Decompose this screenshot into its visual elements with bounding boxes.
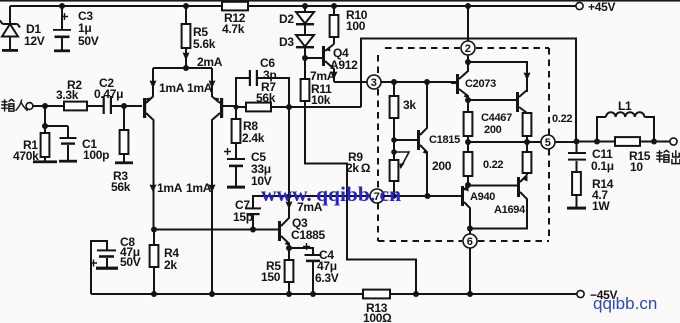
ground (C1) xyxy=(59,160,77,163)
node dot zobel/feedback xyxy=(574,139,580,145)
current arrow 2mA xyxy=(183,53,223,70)
resistor R15 10 (damping) xyxy=(615,137,651,174)
resistor R1 470k xyxy=(13,126,49,163)
resistor R14 4.7 1W xyxy=(572,172,614,213)
ground (C3) xyxy=(54,49,70,52)
wire input node down xyxy=(44,106,46,126)
resistor R2 3.3k xyxy=(56,78,87,110)
capacitor C2 0.47u xyxy=(94,76,123,114)
terminal -45V xyxy=(577,288,618,302)
pin circle 3 xyxy=(367,75,381,89)
svg-text:150: 150 xyxy=(261,270,281,284)
resistor 200 lower xyxy=(464,142,504,185)
svg-text:100p: 100p xyxy=(83,148,109,162)
svg-text:50V: 50V xyxy=(78,34,99,48)
transistor A940 (PNP driver) xyxy=(428,185,495,228)
wire feedback long path to output xyxy=(361,39,576,142)
pin circle 2 xyxy=(461,41,475,55)
node dot L1 right xyxy=(651,139,657,145)
svg-text:1W: 1W xyxy=(592,199,610,213)
svg-text:100: 100 xyxy=(346,19,366,33)
capacitor C4 47u 6.3V xyxy=(289,243,339,294)
svg-text:2: 2 xyxy=(465,43,471,55)
resistor R5 5.6k (tail) xyxy=(182,3,216,68)
transistor Q4 A912 (PNP) xyxy=(305,44,358,82)
svg-text:0.22: 0.22 xyxy=(552,113,572,125)
scan border top xyxy=(0,0,680,2)
node dot C1815 emitter bottom xyxy=(425,193,431,199)
transistor Q2 (PNP right) xyxy=(212,97,236,295)
current arrow 1mA right xyxy=(187,81,216,96)
node dot pot wiper xyxy=(391,149,397,155)
svg-text:1mA: 1mA xyxy=(157,181,183,195)
svg-text:3: 3 xyxy=(371,77,377,89)
label input 输入 xyxy=(1,99,27,111)
resistor R10 100 xyxy=(330,3,368,44)
svg-text:100Ω: 100Ω xyxy=(363,311,392,323)
current arrow 1mA lower-left xyxy=(150,181,183,195)
transistor C4467 (NPN output) xyxy=(468,90,527,115)
node dot pot bottom xyxy=(391,193,396,198)
node dot R4 top xyxy=(151,227,157,233)
transistor A1694 (PNP output) xyxy=(470,175,528,229)
svg-text:1mA: 1mA xyxy=(186,181,212,195)
svg-text:1mA: 1mA xyxy=(159,81,185,95)
capacitor C11 0.1u xyxy=(568,142,614,174)
ground (C8) xyxy=(96,267,118,270)
svg-text:10: 10 xyxy=(630,160,643,174)
wire C2 to Q1 base xyxy=(112,105,142,107)
ground (D1) xyxy=(2,49,18,52)
capacitor C8 47u 50V xyxy=(90,235,141,294)
node dot collectors top xyxy=(465,59,471,65)
transistor C2073 (NPN driver) xyxy=(451,62,496,100)
capacitor C3 1u 50V xyxy=(53,6,99,50)
wire output line xyxy=(577,141,671,143)
inductor L1 xyxy=(597,99,654,142)
node dot Q4 base xyxy=(302,55,308,61)
node dot A940 emitter xyxy=(465,182,471,188)
node dot C2073 emitter xyxy=(465,97,471,103)
svg-text:6: 6 xyxy=(467,236,473,248)
svg-text:3k: 3k xyxy=(403,98,416,112)
capacitor C5 33u 10V xyxy=(224,143,272,188)
svg-text:2mA: 2mA xyxy=(197,55,223,69)
wire Q1 collector to Q3 base xyxy=(153,229,278,231)
svg-text:15p: 15p xyxy=(233,210,253,224)
svg-text:7mA: 7mA xyxy=(310,69,336,83)
svg-text:qqibb.cn: qqibb.cn xyxy=(593,294,657,313)
terminal output xyxy=(670,138,677,145)
terminal +45V xyxy=(576,0,616,14)
svg-text:A1694: A1694 xyxy=(494,204,526,216)
node dot feedback/VAS xyxy=(286,104,292,110)
resistor R8 2.4k xyxy=(232,107,265,145)
resistor R5 150 (emitter) xyxy=(261,248,293,294)
resistor 0.22 lower xyxy=(523,142,532,175)
label output 输出 xyxy=(656,150,680,163)
svg-text:0.22: 0.22 xyxy=(483,159,503,171)
transistor Q3 C1885 (VAS NPN) xyxy=(278,78,325,248)
wire input to R2 xyxy=(33,105,64,107)
node dot rail Q2 xyxy=(209,291,215,297)
svg-text:200: 200 xyxy=(484,124,502,136)
svg-text:5: 5 xyxy=(545,137,551,149)
node dot rail R11 path xyxy=(413,291,419,297)
current arrow on C4467 collector xyxy=(524,73,531,81)
capacitor C7 15p xyxy=(233,196,289,230)
svg-text:0.47μ: 0.47μ xyxy=(94,87,123,101)
resistor R13 100ohm (in bottom rail) xyxy=(363,290,392,323)
svg-text:D2: D2 xyxy=(279,12,294,26)
ground (R14) xyxy=(567,207,586,210)
transistor C1815 (bias) xyxy=(394,82,460,196)
capacitor C1 100p xyxy=(45,126,109,162)
wire pin6 to rail xyxy=(469,228,471,294)
svg-text:A940: A940 xyxy=(470,191,495,203)
terminal input xyxy=(26,103,33,110)
svg-text:5.6k: 5.6k xyxy=(193,37,216,51)
node dot rail pin6 xyxy=(467,291,473,297)
wire node5 line xyxy=(468,141,541,143)
node dot rail R5-150 xyxy=(286,291,292,297)
pin circle 7 xyxy=(370,189,384,203)
svg-text:D3: D3 xyxy=(279,35,294,49)
node dot collectors bottom xyxy=(467,226,473,232)
node dot Q3 emitter xyxy=(286,245,292,251)
resistor R4 2k xyxy=(150,230,180,295)
node dot rail R4 xyxy=(151,291,157,297)
node dot Q3 collector net xyxy=(286,193,291,198)
svg-text:C1815: C1815 xyxy=(429,134,460,146)
current arrow 7mA (Q3) xyxy=(286,200,323,214)
pin circle 5 xyxy=(541,135,555,149)
current arrow 1mA left xyxy=(150,81,185,96)
svg-text:56k: 56k xyxy=(256,91,276,105)
svg-text:L1: L1 xyxy=(618,99,632,113)
svg-text:2k Ω: 2k Ω xyxy=(346,161,371,175)
resistor R11 10k xyxy=(301,58,416,294)
node dot 3k top xyxy=(391,79,397,85)
wire top collector run xyxy=(468,62,527,92)
feedback resistor R7 56k xyxy=(236,80,361,111)
svg-text:200: 200 xyxy=(432,159,452,173)
svg-text:2k: 2k xyxy=(164,258,177,272)
svg-text:+45V: +45V xyxy=(588,0,615,14)
resistor R3 56k xyxy=(111,106,131,194)
svg-text:3p: 3p xyxy=(263,68,276,82)
current arrow 1mA lower-right xyxy=(186,181,216,195)
node dot C1815 collector top xyxy=(424,79,430,85)
resistor 0.22 upper xyxy=(523,112,573,142)
node dot C7/Q3 base xyxy=(250,227,256,233)
wire: +45V top rail xyxy=(10,5,577,7)
wire R2 to C2 xyxy=(87,105,103,107)
wire A940/A1694 base link xyxy=(468,185,517,187)
dashed module box xyxy=(378,48,549,241)
node dot L1 left xyxy=(594,139,600,145)
capacitor C6 3p (parallel R7) xyxy=(236,56,289,107)
resistor R12 4.7k (in top rail) xyxy=(222,2,248,36)
node dot input xyxy=(42,103,48,109)
diode D3 xyxy=(279,35,314,58)
svg-text:1mA: 1mA xyxy=(187,81,213,95)
node dot tail xyxy=(183,65,189,71)
node: rail dot at C3 xyxy=(59,3,65,9)
node dot C1815 base xyxy=(391,137,397,143)
node dot mid drivers xyxy=(465,139,471,145)
svg-text:C1885: C1885 xyxy=(291,228,325,242)
node dot output emitters xyxy=(524,139,530,145)
svg-text:www. qqibb. cn: www. qqibb. cn xyxy=(261,182,401,206)
diode D2 xyxy=(279,3,314,35)
zener diode D1 12V xyxy=(0,6,45,50)
svg-text:1μ: 1μ xyxy=(78,21,91,35)
resistor 3k xyxy=(390,82,417,140)
node dot rail C4 xyxy=(310,291,316,297)
ground (R3) xyxy=(115,161,133,164)
svg-text:C4467: C4467 xyxy=(481,112,512,124)
svg-text:4.7k: 4.7k xyxy=(222,22,245,36)
node dot C2/R3 xyxy=(121,103,127,109)
current arrow 7mA (Q4) xyxy=(310,69,338,83)
wire node3 line xyxy=(334,81,367,83)
wire node7 line xyxy=(289,195,370,197)
svg-text:50V: 50V xyxy=(120,255,141,269)
wire: -45V bottom rail xyxy=(91,293,577,295)
pin circle 6 xyxy=(463,234,477,248)
svg-text:6.3V: 6.3V xyxy=(315,271,339,285)
wire tail split xyxy=(153,68,212,97)
resistor 200 upper xyxy=(464,100,512,142)
transistor Q1 (PNP left) xyxy=(143,97,154,230)
ground (R1) xyxy=(33,160,57,163)
svg-text:2.4k: 2.4k xyxy=(242,131,265,145)
ground (C5) xyxy=(227,186,245,189)
svg-text:0.1μ: 0.1μ xyxy=(591,159,614,173)
node dot R1/C1 xyxy=(42,123,48,129)
svg-text:12V: 12V xyxy=(24,34,45,48)
potentiometer R9 2k xyxy=(346,140,409,196)
svg-text:56k: 56k xyxy=(111,180,131,194)
svg-text:C2073: C2073 xyxy=(465,78,496,90)
wire +45 rail to pin2 xyxy=(467,6,469,41)
svg-text:10k: 10k xyxy=(311,93,331,107)
node dot Q2 base junction xyxy=(233,104,238,109)
svg-text:3.3k: 3.3k xyxy=(56,88,79,102)
